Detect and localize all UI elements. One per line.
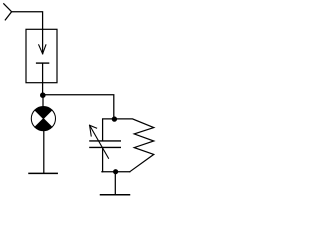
resistor R1 bbox=[114, 119, 153, 172]
wire capacitor to bottom node bbox=[102, 148, 104, 172]
node B junction dot bbox=[112, 116, 117, 121]
bottom wire node C bbox=[102, 171, 130, 173]
antenna input terminal bbox=[4, 4, 12, 20]
wire lamp to left ground bbox=[43, 131, 45, 173]
wire node C to right ground bbox=[114, 172, 116, 195]
variable capacitor C1 plates bbox=[90, 141, 120, 148]
wire node B to capacitor stem bbox=[103, 119, 115, 140]
left ground bbox=[29, 172, 57, 174]
indicator lamp LA1 bbox=[31, 107, 55, 131]
node A junction dot bbox=[40, 92, 46, 98]
plate electrode inside V1 bbox=[37, 62, 49, 64]
detector tube V1 (box) bbox=[26, 29, 57, 82]
wire from antenna to top of tube bbox=[12, 12, 43, 30]
wire node A to right branch bbox=[43, 95, 114, 117]
variable capacitor C1 arrow bbox=[90, 125, 109, 158]
wire from plate to node A bbox=[42, 63, 44, 92]
arrow electrode inside V1 bbox=[39, 29, 46, 54]
wire node A to lamp bbox=[42, 95, 44, 106]
node C junction dot bbox=[113, 169, 118, 174]
right ground bbox=[101, 194, 130, 196]
